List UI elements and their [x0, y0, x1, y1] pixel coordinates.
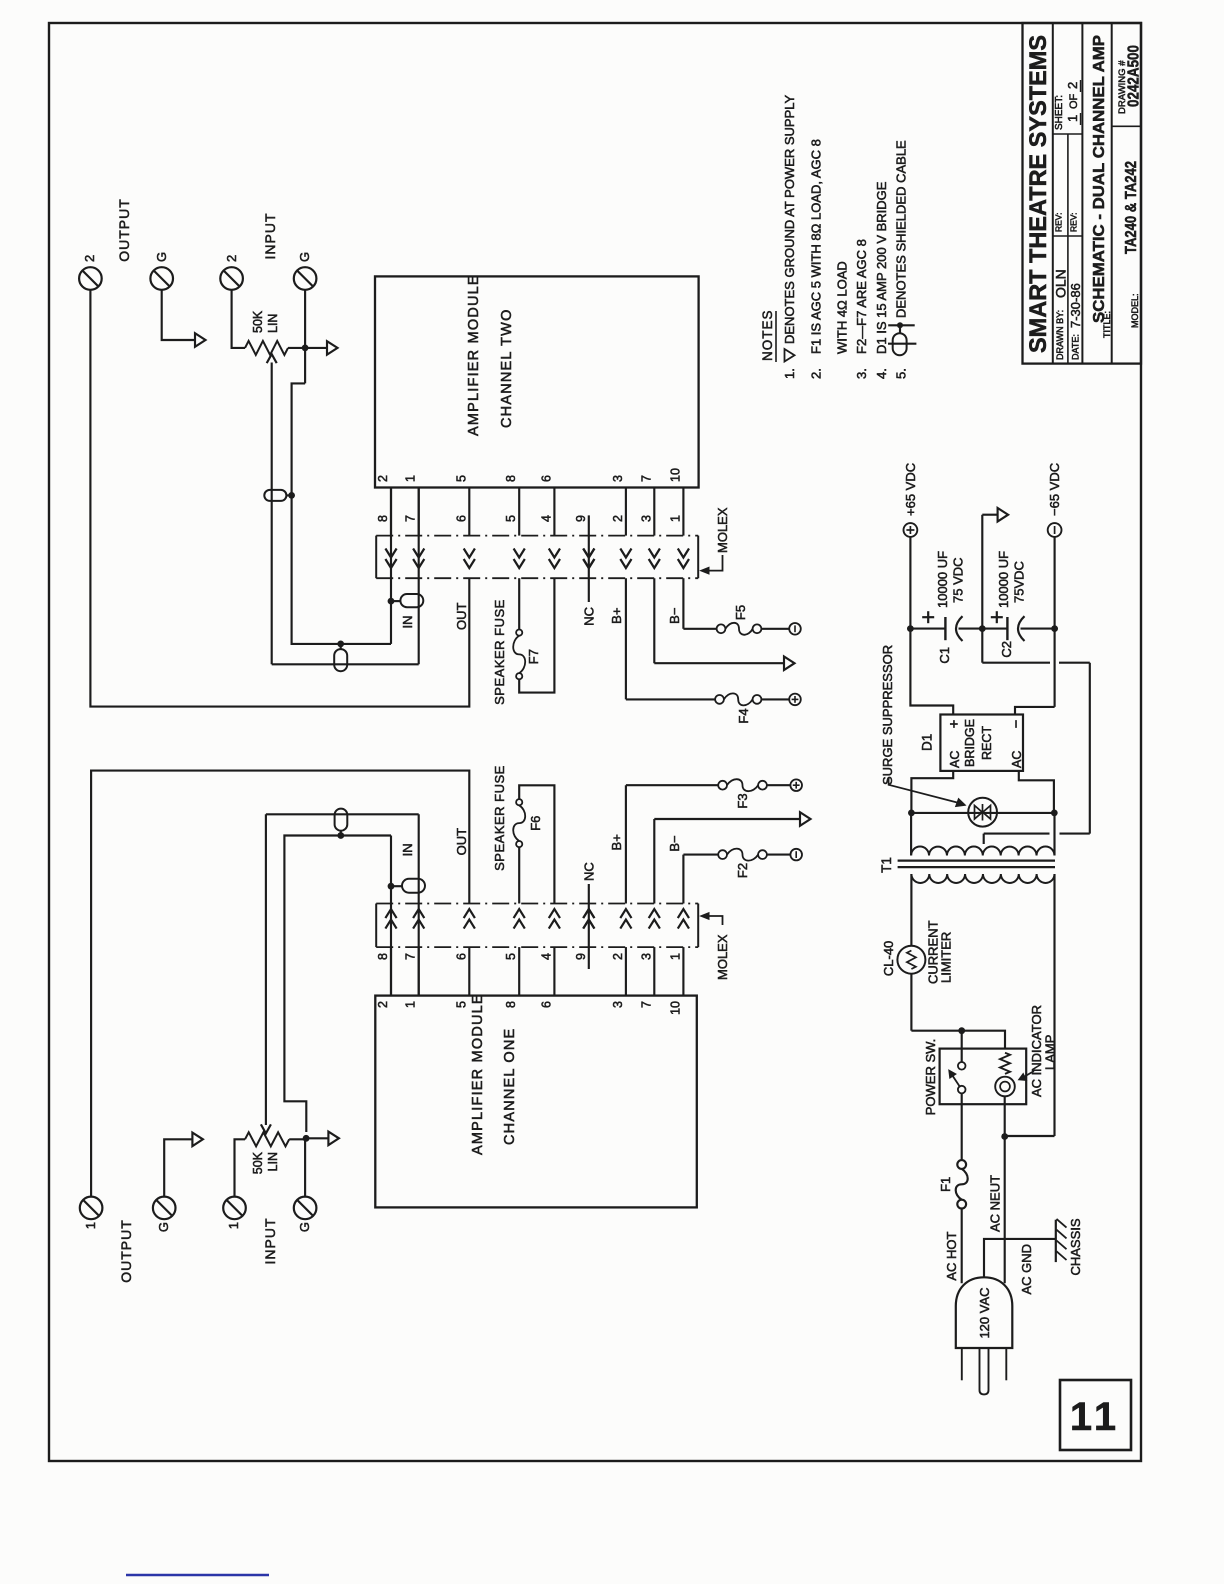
svg-text:7: 7 — [639, 1001, 653, 1008]
svg-text:NC: NC — [582, 607, 597, 626]
wire fuse F6 loop to J1 pin 4 (channel one) — [519, 785, 554, 903]
svg-text:9: 9 — [574, 515, 588, 522]
wire fuse F7 loop to J2 pin 4 (channel two) — [519, 578, 554, 692]
node shield tap on ground wire (channel two) — [337, 641, 344, 648]
svg-text:10: 10 — [668, 468, 682, 482]
wire pot R2 to INPUT G junction (channel two) — [288, 347, 305, 349]
svg-text:50K: 50K — [251, 1151, 265, 1174]
svg-text:75VDC: 75VDC — [1012, 561, 1027, 603]
connector J1 MOLEX (channel one) — [376, 904, 698, 948]
capacitor C1 10000 UF 75 VDC — [922, 551, 965, 664]
svg-text:NOTES: NOTES — [760, 309, 775, 361]
transformer T1 primary winding — [911, 874, 1054, 1136]
wire junction to ground symbol (channel one) — [306, 1137, 328, 1139]
wire pot R1 to INPUT G junction (channel one) — [289, 1138, 306, 1140]
note 4 — [874, 181, 889, 379]
svg-text:2: 2 — [611, 515, 625, 522]
wire D1 AC left to transformer secondary — [911, 771, 953, 813]
svg-text:2: 2 — [1065, 82, 1080, 89]
U2 pin numbers 2 1 5 8 6 3 7 10 — [376, 468, 682, 482]
terminal circled + B+ supply (channel two) — [789, 694, 801, 706]
label MOLEX with leader arrow (channel two) — [701, 507, 731, 574]
node shield tap at pot (channel two) — [288, 492, 295, 499]
svg-text:3: 3 — [639, 515, 653, 522]
terminal OUTPUT G (channel two) — [150, 252, 173, 290]
svg-text:SPEAKER FUSE: SPEAKER FUSE — [492, 599, 507, 705]
svg-text:IN: IN — [400, 843, 415, 856]
svg-text:1: 1 — [668, 953, 682, 960]
power switch POWER SW. — [923, 1031, 1026, 1160]
svg-text:2: 2 — [224, 255, 239, 262]
svg-text:75 VDC: 75 VDC — [951, 557, 966, 603]
wire F4 to B+ supply terminal (channel two) — [761, 698, 789, 700]
svg-text:B−: B− — [667, 835, 682, 851]
capacitor bus and C1 C2 — [910, 628, 1054, 630]
svg-text:7: 7 — [404, 953, 418, 960]
label MOLEX with leader arrow (channel one) — [701, 913, 731, 980]
svg-text:5: 5 — [504, 515, 518, 522]
fuse F1 — [938, 1160, 968, 1208]
title block title — [1091, 35, 1112, 338]
wire OUTPUT 1 to J1 pin 6 OUT (channel one) — [91, 771, 469, 1197]
node pot-ground junction (channel one) — [303, 1135, 310, 1142]
svg-text:7: 7 — [639, 475, 653, 482]
svg-text:F7: F7 — [526, 649, 541, 664]
J1 chevron contacts (channel one) — [385, 909, 689, 929]
node pot-ground junction (channel two) — [302, 345, 309, 352]
svg-text:OUT: OUT — [454, 828, 469, 856]
note 1 ground symbol legend — [782, 94, 797, 379]
shielded cable symbol at J1 pin 7 (channel one) — [391, 879, 425, 893]
svg-text:7-30-86: 7-30-86 — [1068, 283, 1083, 328]
wire junction to ground symbol (channel two) — [305, 347, 327, 349]
svg-text:6: 6 — [454, 953, 468, 960]
svg-text:D1: D1 — [920, 734, 935, 751]
fuse F5 (channel two B-) — [717, 605, 762, 635]
notes heading — [760, 309, 776, 362]
svg-text:10000 UF: 10000 UF — [996, 551, 1011, 608]
chevrons on NC stub (channel two) — [583, 549, 594, 569]
svg-text:LIMITER: LIMITER — [939, 932, 954, 983]
svg-text:D1 IS 15 AMP 200 V BRIDGE: D1 IS 15 AMP 200 V BRIDGE — [874, 181, 889, 354]
svg-text:6: 6 — [539, 475, 553, 482]
ground symbol power supply (channel one) — [800, 812, 811, 826]
terminal INPUT 1 (channel one) — [223, 1197, 246, 1230]
transformer T1 secondary winding — [911, 812, 1054, 855]
svg-text:10: 10 — [668, 1001, 682, 1015]
node C2 - rail junction — [1051, 625, 1058, 632]
wire ground run: J1 pin 8 to pot ground (channel one) — [284, 836, 391, 1133]
svg-text:6: 6 — [454, 515, 468, 522]
svg-text:CHANNEL TWO: CHANNEL TWO — [499, 308, 515, 428]
svg-text:NC: NC — [582, 862, 597, 881]
terminal INPUT G (channel one) — [294, 1197, 317, 1233]
potentiometer R1 50K LIN (channel one) — [245, 1132, 289, 1174]
fuse F2 (channel one B-) — [718, 849, 767, 878]
title block sheet — [1054, 80, 1081, 130]
wiper arrow into pot R2 (channel two) — [267, 354, 277, 363]
svg-text:8: 8 — [504, 1001, 518, 1008]
svg-text:OLN: OLN — [1053, 269, 1069, 298]
note 2 — [809, 139, 850, 379]
svg-text:+65 VDC: +65 VDC — [903, 463, 918, 516]
svg-text:2: 2 — [376, 475, 390, 482]
capacitor C2 10000 UF 75 VDC — [991, 551, 1027, 658]
title block model — [1123, 161, 1140, 328]
svg-text:DENOTES SHIELDED CABLE: DENOTES SHIELDED CABLE — [894, 140, 909, 318]
svg-text:AMPLIFIER MODULE: AMPLIFIER MODULE — [470, 993, 486, 1155]
svg-text:IN: IN — [400, 616, 415, 629]
terminal circled + B+ supply (channel one) — [790, 779, 802, 791]
svg-text:B+: B+ — [609, 608, 624, 624]
terminal INPUT G (channel two) — [294, 252, 317, 290]
terminal INPUT 2 (channel two) — [220, 255, 243, 290]
wire -65 VDC rail — [1054, 537, 1056, 707]
bridge rectifier D1 BRIDGE RECT — [920, 715, 1026, 771]
svg-text:OUTPUT: OUTPUT — [116, 198, 132, 262]
svg-text:BRIDGE: BRIDGE — [963, 719, 977, 767]
svg-text:OUTPUT: OUTPUT — [118, 1219, 134, 1283]
chevrons on NC stub (channel one) — [583, 909, 594, 929]
wire OUTPUT G to chassis ground (channel two) — [162, 290, 195, 340]
node switch-lamp junction — [958, 1027, 965, 1034]
wire +65 VDC rail — [909, 537, 911, 629]
svg-text:1: 1 — [404, 475, 418, 482]
surge suppressor across secondary — [911, 798, 1054, 827]
wire signal IN: J1 pin 7 to pot wiper (channel one) — [266, 814, 419, 1125]
svg-text:DATE:: DATE: — [1071, 334, 1081, 360]
svg-text:F4: F4 — [736, 708, 751, 723]
wires U1 pins to J1 (channel one) — [391, 947, 683, 996]
svg-text:5: 5 — [454, 475, 468, 482]
wire AC NEUT from plug to lamp junction — [1004, 1137, 1006, 1284]
svg-text:4: 4 — [539, 953, 553, 960]
ground symbol at pot (channel one) — [328, 1132, 339, 1146]
svg-text:8: 8 — [376, 515, 390, 522]
svg-text:F6: F6 — [528, 816, 543, 831]
svg-text:3: 3 — [639, 953, 653, 960]
svg-text:SMART THEATRE SYSTEMS: SMART THEATRE SYSTEMS — [1025, 35, 1052, 353]
svg-text:7: 7 — [404, 515, 418, 522]
svg-text:MOLEX: MOLEX — [715, 507, 730, 553]
terminal OUTPUT 2 (channel two) — [79, 255, 102, 290]
connector J2 MOLEX (channel two) — [376, 536, 698, 579]
svg-text:AMPLIFIER MODULE: AMPLIFIER MODULE — [466, 274, 482, 436]
svg-text:F1 IS AGC 5 WITH 8Ω LOAD, A: F1 IS AGC 5 WITH 8Ω LOAD, AGC 8 — [809, 139, 824, 354]
svg-text:−65 VDC: −65 VDC — [1047, 463, 1062, 516]
J2 chevron contacts (channel two) — [385, 549, 689, 569]
potentiometer R2 50K LIN (channel two) — [245, 310, 288, 355]
wire F3 to B+ supply terminal (channel one) — [767, 784, 791, 786]
wire J1 pin 2 B+ to fuse F3 (channel one) — [626, 785, 718, 903]
blue scan mark line — [126, 1574, 269, 1577]
wires U2 pins to J2 (channel two) — [391, 488, 683, 536]
svg-text:B−: B− — [667, 608, 682, 624]
label SURGE SUPPRESSOR with leader — [880, 645, 965, 807]
svg-text:5: 5 — [454, 1001, 468, 1008]
svg-text:SHEET:: SHEET: — [1054, 95, 1065, 130]
ground symbol supply center — [998, 508, 1009, 522]
wire D1 - to C2 — [1015, 707, 1055, 715]
wire NC stub J2 pin 9 (channel two) — [588, 515, 590, 602]
current limiter CL-40 — [881, 920, 954, 984]
svg-text:AC: AC — [948, 751, 962, 768]
svg-text:G: G — [297, 1222, 312, 1232]
ground symbol at pot (channel two) — [327, 341, 338, 355]
svg-text:POWER SW.: POWER SW. — [923, 1039, 938, 1116]
wire J1 pin 1 B- to fuse F2 (channel one) — [683, 855, 718, 904]
page number box 11 — [1060, 1380, 1131, 1450]
svg-text:AC NEUT: AC NEUT — [988, 1175, 1003, 1232]
svg-text:0242A500: 0242A500 — [1126, 45, 1143, 107]
svg-text:G: G — [154, 252, 169, 262]
svg-text:MOLEX: MOLEX — [715, 934, 730, 980]
terminal circled - B- supply (channel two) — [789, 623, 801, 635]
svg-text:+: + — [946, 719, 963, 728]
wire J2 pin 5 to speaker fuse F7 (channel two) — [518, 578, 520, 629]
svg-text:CHASSIS: CHASSIS — [1068, 1218, 1083, 1275]
svg-text:LIN: LIN — [266, 1152, 280, 1171]
svg-text:F5: F5 — [733, 605, 748, 620]
title block date — [1068, 283, 1083, 360]
ground symbol at output G (channel two) — [195, 333, 206, 347]
wire supply ground to ground symbol — [982, 515, 997, 629]
svg-text:120 VAC: 120 VAC — [977, 1287, 992, 1338]
svg-text:1.: 1. — [782, 368, 797, 379]
svg-text:F2—F7 ARE AGC 8: F2—F7 ARE AGC 8 — [854, 239, 869, 354]
svg-text:OUT: OUT — [454, 602, 469, 630]
node lamp to AC NEUT junction — [1001, 1133, 1008, 1140]
svg-text:OF: OF — [1068, 93, 1080, 109]
wire INPUT 2 to pot R2 (channel two) — [232, 290, 245, 348]
node shield tap on ground wire (channel one) — [337, 832, 344, 839]
svg-text:MODEL:: MODEL: — [1130, 293, 1140, 328]
wire J2 pin 2 B+ to fuse F4 (channel two) — [626, 578, 715, 699]
svg-text:3: 3 — [611, 475, 625, 482]
J2 pin numbers 8 7 6 5 4 9 2 3 1 — [376, 515, 682, 522]
fuse F6 SPEAKER FUSE (channel one) — [492, 765, 543, 871]
svg-text:DRAWN BY:: DRAWN BY: — [1055, 310, 1065, 360]
svg-text:C2: C2 — [999, 641, 1014, 658]
svg-text:50K: 50K — [251, 310, 265, 333]
shielded cable symbol at J2 pin 7 (channel two) — [391, 594, 423, 607]
svg-text:2.: 2. — [809, 368, 824, 379]
svg-text:11: 11 — [1070, 1395, 1120, 1439]
wire F2 to B- supply terminal (channel one) — [767, 854, 791, 856]
op-amp module U1 AMPLIFIER MODULE CHANNEL ONE — [375, 993, 697, 1207]
U1 pin numbers 2 1 5 8 6 3 7 10 — [376, 1001, 682, 1015]
svg-text:F3: F3 — [735, 793, 750, 808]
svg-text:−: − — [1008, 719, 1025, 728]
node suppressor top junction — [908, 810, 915, 817]
wire AC GND from plug to chassis — [984, 1239, 1056, 1277]
wire J2 pin 3 to power-supply ground (channel two) — [654, 578, 784, 663]
svg-text:2: 2 — [611, 953, 625, 960]
svg-text:WITH 4Ω LOAD: WITH 4Ω LOAD — [835, 261, 850, 354]
svg-text:1: 1 — [404, 1001, 418, 1008]
svg-text:C1: C1 — [937, 647, 952, 664]
svg-text:LAMP: LAMP — [1043, 1035, 1058, 1070]
wire F5 to B- supply terminal (channel two) — [761, 628, 789, 630]
svg-text:1: 1 — [226, 1222, 241, 1229]
svg-text:INPUT: INPUT — [262, 1218, 278, 1265]
wire INPUT G to junction (channel one) — [304, 1138, 306, 1196]
note 5 shielded cable legend — [888, 140, 916, 379]
svg-text:REV:: REV: — [1069, 212, 1079, 232]
shielded cable symbol at pot wiper (channel two) — [264, 490, 291, 501]
ground symbol at output G (channel one) — [192, 1133, 203, 1147]
wire J1 pin 3 to power-supply ground (channel one) — [654, 819, 800, 904]
wire INPUT G to junction (channel two) — [304, 290, 306, 384]
wire signal IN: J2 pin 7 to pot wiper (channel two) — [272, 363, 419, 665]
svg-text:G: G — [156, 1222, 171, 1232]
terminal circled - 65 VDC — [1047, 463, 1062, 537]
chassis ground symbol — [1056, 1218, 1083, 1275]
svg-text:4: 4 — [539, 515, 553, 522]
fuse F4 (channel two B+) — [715, 693, 761, 723]
svg-text:SURGE SUPPRESSOR: SURGE SUPPRESSOR — [880, 645, 895, 785]
svg-text:INPUT: INPUT — [262, 213, 278, 260]
node shield tap on ground run (channel two) — [388, 598, 395, 605]
svg-text:4.: 4. — [874, 368, 889, 379]
svg-text:DENOTES GROUND AT POWER SUPPL: DENOTES GROUND AT POWER SUPPLY — [782, 94, 797, 344]
svg-text:CL-40: CL-40 — [881, 941, 896, 976]
wiper arrow into pot R1 (channel one) — [261, 1124, 271, 1133]
svg-text:RECT: RECT — [980, 726, 994, 760]
resistor and AC indicator lamp branch — [962, 1031, 1015, 1137]
node suppressor bottom junction — [1051, 810, 1058, 817]
fuse F3 (channel one B+) — [718, 779, 767, 808]
svg-text:LIN: LIN — [266, 314, 280, 333]
svg-text:B+: B+ — [609, 834, 624, 850]
ground symbol power supply (channel two) — [784, 657, 795, 671]
wire J2 pin 1 B- to fuse F5 (channel two) — [683, 578, 716, 629]
wire INPUT 1 to pot R1 (channel one) — [235, 1139, 246, 1196]
svg-text:SPEAKER FUSE: SPEAKER FUSE — [492, 765, 507, 871]
svg-text:F1: F1 — [938, 1177, 953, 1192]
node shield tap on ground run (channel one) — [388, 883, 395, 890]
op-amp module U2 AMPLIFIER MODULE CHANNEL TWO — [375, 274, 699, 487]
wire AC HOT from plug to F1 — [961, 1209, 963, 1284]
svg-text:2: 2 — [376, 1001, 390, 1008]
svg-text:6: 6 — [539, 1001, 553, 1008]
fuse F7 SPEAKER FUSE (channel two) — [492, 599, 541, 705]
svg-text:1: 1 — [668, 515, 682, 522]
svg-text:3.: 3. — [854, 368, 869, 379]
wire CL-40 to power switch — [911, 974, 961, 1031]
wire J1 pin 5 to speaker fuse F6 (channel one) — [518, 847, 520, 903]
svg-text:8: 8 — [376, 953, 390, 960]
svg-text:AC GND: AC GND — [1019, 1244, 1034, 1295]
svg-text:T1: T1 — [879, 857, 894, 873]
svg-text:CHANNEL ONE: CHANNEL ONE — [502, 1028, 518, 1145]
svg-text:5.: 5. — [894, 368, 909, 379]
terminal circled + 65 VDC — [903, 463, 918, 537]
mains plug 120 VAC — [956, 1277, 1013, 1394]
svg-text:1: 1 — [83, 1222, 98, 1229]
shielded cable symbol on signal run (channel two) — [334, 644, 347, 671]
terminal OUTPUT 1 (channel one) — [80, 1197, 103, 1230]
J1 pin numbers 8 7 6 5 4 9 2 3 1 — [376, 953, 682, 960]
svg-text:TA240 & TA242: TA240 & TA242 — [1123, 161, 1140, 254]
svg-text:AC HOT: AC HOT — [944, 1231, 959, 1280]
svg-text:F2: F2 — [735, 863, 750, 878]
title block drawn by — [1053, 269, 1069, 360]
title block drawing number — [1117, 45, 1143, 114]
wire NC stub J1 pin 9 (channel one) — [588, 884, 590, 969]
shielded cable symbol on signal run (channel one) — [335, 809, 348, 836]
svg-text:3: 3 — [611, 1001, 625, 1008]
wire center-tap ground return — [982, 629, 1090, 844]
svg-text:AC: AC — [1010, 751, 1024, 768]
wire OUTPUT 2 to J2 pin 6 OUT (channel two) — [90, 290, 469, 707]
svg-text:5: 5 — [504, 953, 518, 960]
note 3 — [854, 239, 869, 379]
title block rev fields — [1054, 212, 1079, 232]
svg-text:9: 9 — [574, 953, 588, 960]
wire D1 AC right to transformer secondary — [1019, 771, 1054, 813]
svg-text:SCHEMATIC - DUAL CHANNEL AMP: SCHEMATIC - DUAL CHANNEL AMP — [1091, 35, 1108, 323]
transformer T1 core — [879, 857, 1055, 873]
svg-text:2: 2 — [82, 255, 97, 262]
wire ground run: J2 pin 8 to pot ground (channel two) — [292, 383, 391, 644]
node C1 C2 ground junction — [979, 625, 986, 632]
svg-text:REV:: REV: — [1054, 212, 1064, 232]
svg-text:1: 1 — [1065, 115, 1080, 122]
title block — [1023, 23, 1142, 364]
node C1 + rail junction — [907, 625, 914, 632]
wire D1 + to C1 — [910, 629, 953, 715]
svg-text:G: G — [297, 252, 312, 262]
svg-text:10000 UF: 10000 UF — [935, 551, 950, 608]
terminal OUTPUT G (channel one) — [153, 1197, 176, 1233]
terminal circled - B- supply (channel one) — [790, 849, 802, 861]
svg-text:8: 8 — [504, 475, 518, 482]
label AC INDICATOR LAMP with leader — [1019, 1005, 1058, 1097]
wire OUTPUT G to chassis ground (channel one) — [164, 1139, 192, 1196]
